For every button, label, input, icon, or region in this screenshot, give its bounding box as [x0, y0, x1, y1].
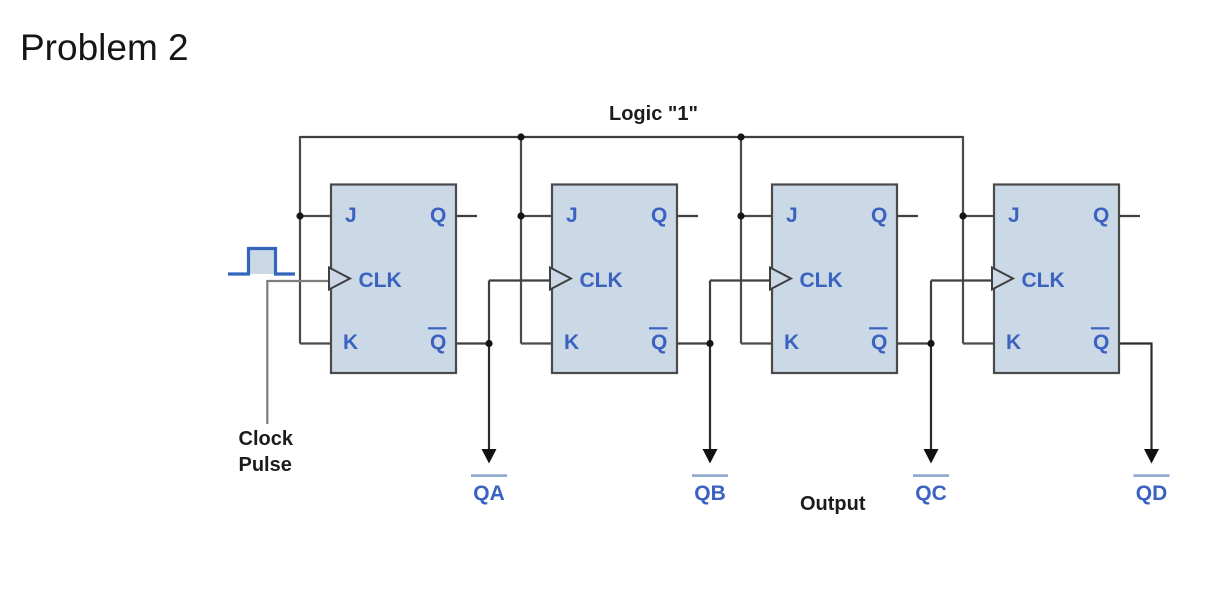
junction dot top rail at U3 drop [737, 133, 744, 140]
svg-text:CLK: CLK [359, 269, 402, 292]
svg-text:K: K [343, 331, 358, 354]
flip-flop U3 body [772, 185, 897, 374]
wire U2 Q output stub [677, 215, 698, 217]
label QD (with overline) [1134, 474, 1170, 477]
flip-flop U2 CLK edge triangle [550, 268, 571, 290]
svg-text:CLK: CLK [800, 269, 843, 292]
svg-text:J: J [345, 204, 357, 227]
wire U3 Q-bar to U4 CLK [897, 281, 994, 344]
svg-text:Output: Output [800, 493, 866, 515]
label QA (with overline) [471, 474, 507, 477]
junction node QA [485, 340, 492, 347]
svg-text:QB: QB [694, 482, 726, 505]
svg-text:J: J [786, 204, 798, 227]
svg-text:J: J [1008, 204, 1020, 227]
junction dot top rail at U2 drop [517, 133, 524, 140]
wire QA output arrow [488, 344, 490, 452]
wire QB output arrow [709, 344, 711, 452]
svg-text:Q: Q [871, 204, 887, 227]
wire QC output arrow [930, 344, 932, 452]
flip-flop U4 body [994, 185, 1119, 374]
wire U4 Q output stub [1119, 215, 1140, 217]
svg-text:QC: QC [915, 482, 947, 505]
junction dot J U1 [296, 212, 303, 219]
svg-text:Q: Q [871, 331, 887, 354]
svg-text:CLK: CLK [1022, 269, 1065, 292]
flip-flop U1 CLK edge triangle [329, 268, 350, 290]
junction node QB [706, 340, 713, 347]
wire U1 Q output stub [456, 215, 477, 217]
wire top Logic-1 rail [300, 136, 963, 138]
wire QD output arrow [1144, 449, 1159, 464]
junction dot J U3 [737, 212, 744, 219]
wire U1 Q-bar to U2 CLK [456, 281, 552, 344]
svg-text:Pulse: Pulse [239, 454, 292, 476]
flip-flop U2 body [552, 185, 677, 374]
wire logic-1 drop to U2 (J/K tie) [521, 137, 552, 344]
svg-text:K: K [784, 331, 799, 354]
svg-text:Q: Q [1093, 204, 1109, 227]
svg-text:Q: Q [1093, 331, 1109, 354]
label QB (with overline) [692, 474, 728, 477]
wire clock to U1 CLK [267, 281, 331, 424]
wire logic-1 drop to U4 (J/K tie) [963, 136, 994, 344]
label QC (with overline) [913, 474, 949, 477]
svg-text:QD: QD [1136, 482, 1168, 505]
junction dot J U4 [959, 212, 966, 219]
svg-text:Q: Q [651, 204, 667, 227]
svg-text:K: K [1006, 331, 1021, 354]
wire U2 Q-bar to U3 CLK [677, 281, 772, 344]
wire logic-1 drop to U3 (J/K tie) [741, 137, 772, 344]
svg-text:Q: Q [430, 204, 446, 227]
svg-text:CLK: CLK [580, 269, 623, 292]
flip-flop U4 CLK edge triangle [992, 268, 1013, 290]
flip-flop U3 CLK edge triangle [770, 268, 791, 290]
svg-text:Problem 2: Problem 2 [20, 27, 189, 68]
svg-text:Clock: Clock [239, 428, 294, 450]
flip-flop U1 body [331, 185, 456, 374]
svg-text:Logic "1": Logic "1" [609, 103, 698, 125]
svg-text:K: K [564, 331, 579, 354]
svg-text:Q: Q [651, 331, 667, 354]
wire U3 Q output stub [897, 215, 918, 217]
clock pulse symbol [249, 249, 276, 275]
svg-text:J: J [566, 204, 578, 227]
junction dot J U2 [517, 212, 524, 219]
junction node QC [927, 340, 934, 347]
wire U4 Q-bar output [1119, 344, 1152, 452]
svg-text:Q: Q [430, 331, 446, 354]
wire logic-1 drop to U1 (J/K tie) [300, 136, 331, 344]
svg-text:QA: QA [473, 482, 505, 505]
